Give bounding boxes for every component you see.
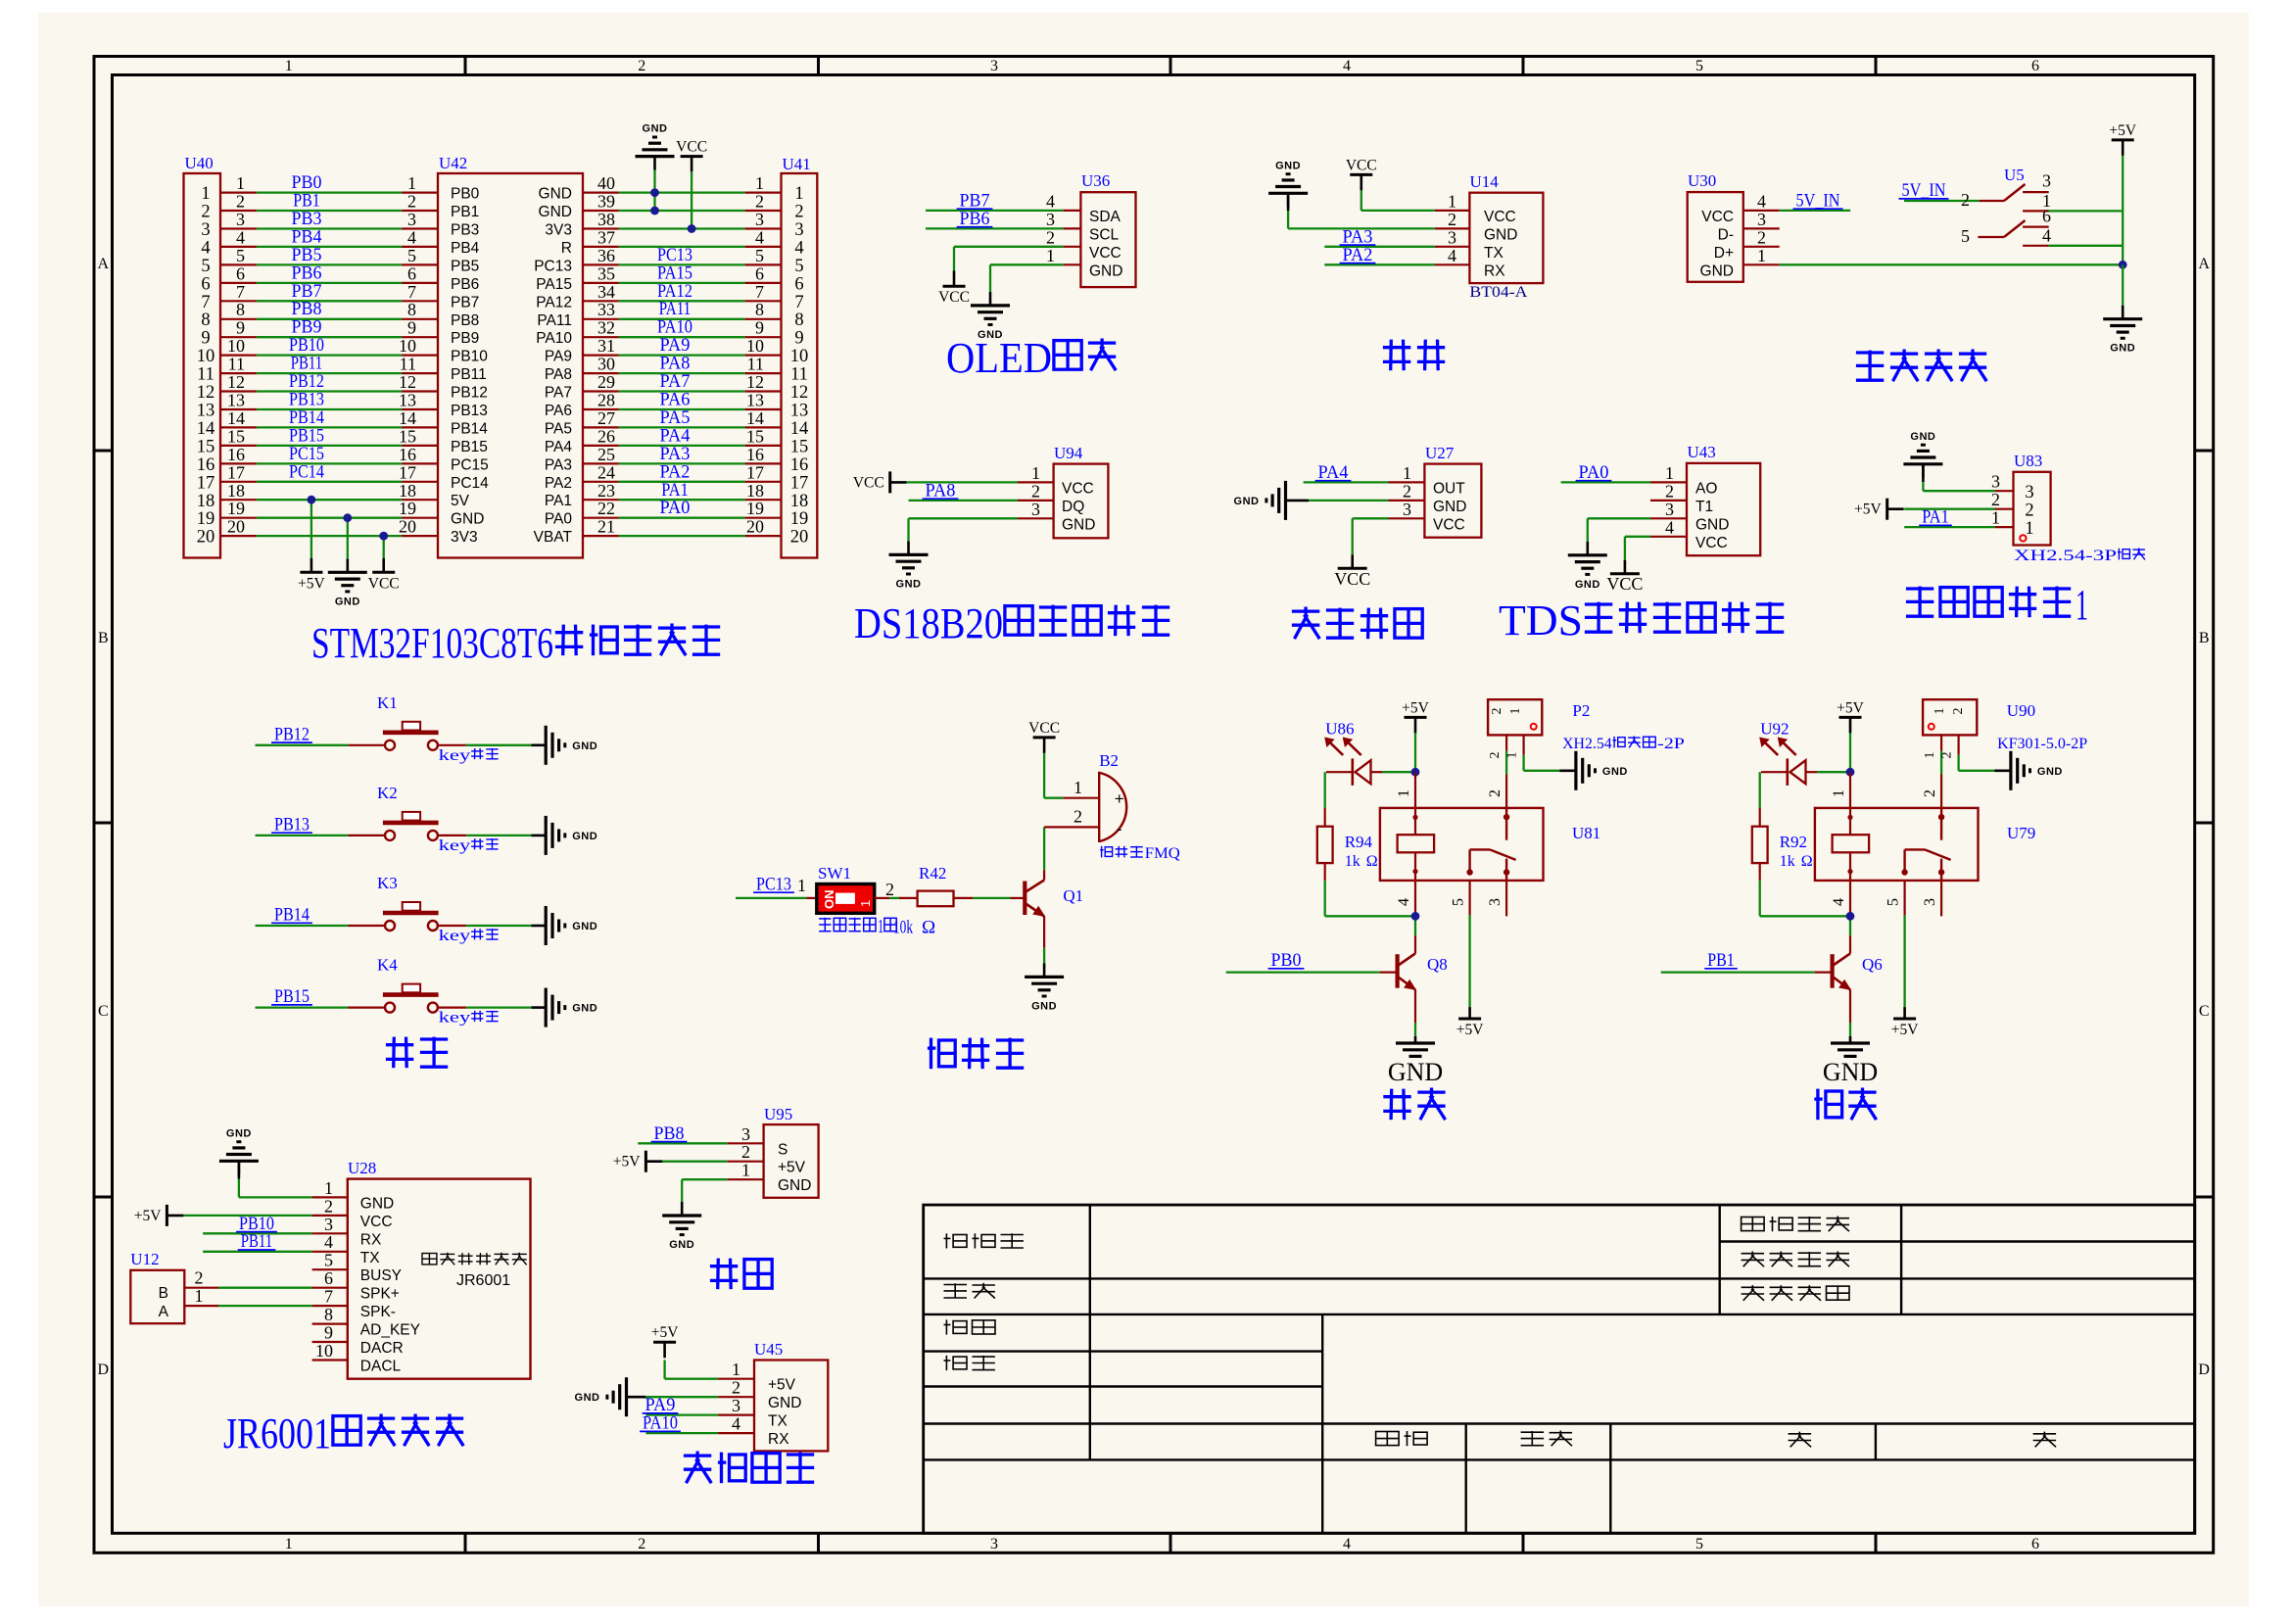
svg-text:7: 7 bbox=[755, 282, 764, 302]
svg-text:U41: U41 bbox=[783, 155, 811, 173]
wire U42 pin27 to U41 PA5 bbox=[583, 407, 782, 428]
svg-text:FMQ: FMQ bbox=[1145, 845, 1180, 862]
svg-text:20: 20 bbox=[790, 528, 809, 548]
wire K2 to GND bbox=[438, 836, 546, 854]
svg-text:TX: TX bbox=[1484, 245, 1503, 262]
junction dot +5V/LED bbox=[1846, 768, 1855, 777]
svg-text:GND: GND bbox=[1575, 579, 1600, 591]
svg-text:PB1: PB1 bbox=[1707, 950, 1735, 971]
junction dot VCC row 3 bbox=[688, 224, 696, 233]
svg-text:8: 8 bbox=[794, 310, 803, 330]
svg-text:S: S bbox=[778, 1141, 788, 1158]
wire P2 pin2 to relay pin2 bbox=[1488, 735, 1506, 808]
svg-text:3: 3 bbox=[755, 210, 764, 229]
svg-text:+5V: +5V bbox=[1854, 502, 1882, 518]
wire GND to U28 pin1 bbox=[239, 1178, 348, 1198]
wire PB8 to U95 pin3 bbox=[638, 1123, 763, 1144]
svg-text:SCL: SCL bbox=[1089, 226, 1120, 243]
wire U42 pin39 to U41 GND bbox=[583, 192, 782, 212]
svg-text:2: 2 bbox=[236, 192, 245, 212]
svg-text:3: 3 bbox=[407, 210, 416, 229]
svg-text:T1: T1 bbox=[1695, 499, 1713, 515]
svg-text:PB13: PB13 bbox=[274, 814, 310, 835]
wire U40 pin11 to U42 PB11 bbox=[220, 354, 438, 374]
svg-text:13: 13 bbox=[746, 391, 764, 410]
wire U40 pin20 to U42 3V3 bbox=[220, 517, 438, 537]
power GND right of K4 bbox=[545, 988, 548, 1027]
svg-text:6: 6 bbox=[2031, 1536, 2039, 1552]
connector P2 bbox=[1488, 699, 1685, 752]
svg-text:8: 8 bbox=[755, 300, 764, 319]
title power module bbox=[1856, 351, 1884, 354]
svg-text:3: 3 bbox=[1757, 210, 1766, 229]
wire SW1 pin2 to R42 bbox=[875, 880, 918, 899]
svg-text:4: 4 bbox=[1831, 898, 1847, 906]
power GND below U43 bbox=[1587, 542, 1590, 555]
connector U90 bbox=[1923, 699, 2087, 752]
svg-text:9: 9 bbox=[755, 318, 764, 338]
svg-text:6: 6 bbox=[2042, 206, 2051, 225]
svg-text:4: 4 bbox=[1343, 58, 1351, 74]
svg-text:PB15: PB15 bbox=[451, 439, 488, 455]
wire VCC to U27 pin3 bbox=[1353, 500, 1425, 555]
svg-text:13: 13 bbox=[399, 391, 416, 410]
svg-text:2: 2 bbox=[407, 192, 416, 212]
svg-text:6: 6 bbox=[755, 263, 764, 283]
svg-text:1: 1 bbox=[1757, 246, 1766, 265]
svg-text:2: 2 bbox=[1487, 789, 1503, 797]
svg-text:14: 14 bbox=[790, 419, 809, 439]
svg-text:2: 2 bbox=[741, 1142, 750, 1162]
svg-text:25: 25 bbox=[597, 445, 615, 464]
svg-text:26: 26 bbox=[597, 426, 615, 446]
svg-text:2: 2 bbox=[1488, 752, 1503, 759]
power VCC below OLED bbox=[938, 270, 970, 306]
svg-text:PB10: PB10 bbox=[451, 349, 488, 365]
svg-text:23: 23 bbox=[597, 481, 615, 501]
power GND symbol top-left of U14 bbox=[1268, 160, 1308, 228]
wire U40 pin19 to U42 GND bbox=[220, 499, 438, 518]
svg-text:11: 11 bbox=[790, 365, 808, 385]
svg-text:GND: GND bbox=[1700, 263, 1734, 279]
svg-text:10: 10 bbox=[197, 347, 215, 366]
wire PB11 to U28 pin4 bbox=[203, 1231, 348, 1252]
svg-text:17: 17 bbox=[399, 462, 416, 482]
wire U40 pin9 to U42 PB9 bbox=[220, 317, 438, 338]
wire U42 pin24 to U41 PA2 bbox=[583, 461, 782, 482]
wire VCC to U43 pin4 bbox=[1625, 517, 1687, 559]
wire +5V to U83 pin2 bbox=[1904, 490, 2013, 509]
svg-text:GND: GND bbox=[1695, 516, 1729, 533]
wire U40 pin8 to U42 PB8 bbox=[220, 299, 438, 319]
svg-text:2: 2 bbox=[732, 1378, 740, 1398]
power GND right of K3 bbox=[545, 906, 548, 945]
svg-text:9: 9 bbox=[201, 329, 210, 349]
svg-text:U81: U81 bbox=[1572, 824, 1600, 842]
wire GND from U30 pin1 bbox=[1743, 246, 2123, 265]
svg-text:B: B bbox=[159, 1285, 168, 1302]
power VCC above buzzer bbox=[1028, 720, 1060, 798]
wire U42 pin30 to U41 PA8 bbox=[583, 354, 782, 374]
svg-text:14: 14 bbox=[746, 408, 764, 428]
svg-text:Ω: Ω bbox=[1801, 853, 1813, 870]
svg-text:1: 1 bbox=[1046, 246, 1055, 265]
wire LED cathode down to resistor bbox=[1325, 772, 1353, 808]
svg-text:1: 1 bbox=[1448, 191, 1456, 211]
svg-text:15: 15 bbox=[399, 426, 416, 446]
svg-text:3: 3 bbox=[201, 220, 210, 240]
title photoelectric infrared bbox=[1292, 609, 1319, 612]
svg-text:PB9: PB9 bbox=[451, 330, 479, 347]
wire U40 pin3 to U42 PB3 bbox=[220, 209, 438, 229]
OLED connector U36 bbox=[1080, 171, 1135, 287]
svg-text:PB12: PB12 bbox=[451, 385, 488, 402]
wire U42 pin28 to U41 PA6 bbox=[583, 390, 782, 410]
svg-text:Q1: Q1 bbox=[1063, 886, 1083, 905]
svg-text:5: 5 bbox=[1961, 226, 1970, 246]
power VCC symbol below U40 bbox=[368, 558, 400, 592]
svg-text:1: 1 bbox=[285, 1536, 293, 1552]
svg-text:6: 6 bbox=[2031, 58, 2039, 74]
svg-text:U36: U36 bbox=[1081, 171, 1110, 190]
svg-text:PA5: PA5 bbox=[545, 420, 572, 437]
svg-text:PB0: PB0 bbox=[1271, 950, 1302, 971]
test port connector U45 bbox=[754, 1340, 828, 1451]
svg-text:1: 1 bbox=[236, 173, 245, 193]
svg-text:2: 2 bbox=[755, 192, 764, 212]
svg-text:JR6001: JR6001 bbox=[456, 1272, 510, 1289]
svg-text:18: 18 bbox=[790, 492, 809, 511]
svg-text:PB3: PB3 bbox=[451, 222, 479, 239]
servo connector U95 bbox=[764, 1105, 819, 1198]
svg-text:12: 12 bbox=[227, 372, 245, 392]
wire PB14 to K3 bbox=[256, 905, 385, 927]
pin D+ of U30 bbox=[1743, 227, 1780, 247]
title keys bbox=[386, 1043, 413, 1046]
svg-text:17: 17 bbox=[197, 473, 215, 493]
wire PB0 to transistor base bbox=[1226, 950, 1398, 973]
power +5V port left of U83 bbox=[1885, 499, 1888, 520]
svg-text:+5V: +5V bbox=[1837, 699, 1864, 716]
svg-text:2: 2 bbox=[1403, 481, 1411, 501]
svg-text:+5V: +5V bbox=[651, 1324, 679, 1341]
wire U42 pin36 to U41 PC13 bbox=[583, 245, 782, 265]
svg-text:VCC: VCC bbox=[1062, 480, 1094, 497]
resistor R42 bbox=[893, 864, 954, 938]
svg-text:key: key bbox=[439, 1010, 471, 1027]
svg-text:11: 11 bbox=[197, 365, 215, 385]
dip switch SW1 bbox=[817, 864, 896, 937]
svg-text:PA3: PA3 bbox=[545, 456, 572, 473]
svg-text:7: 7 bbox=[794, 293, 803, 312]
svg-text:9: 9 bbox=[407, 318, 416, 338]
svg-text:20: 20 bbox=[399, 517, 416, 537]
svg-text:3: 3 bbox=[741, 1124, 750, 1144]
svg-text:4: 4 bbox=[201, 238, 210, 258]
svg-text:GND: GND bbox=[778, 1177, 811, 1194]
svg-text:B: B bbox=[2199, 630, 2210, 646]
svg-text:11: 11 bbox=[228, 355, 245, 374]
svg-text:1k: 1k bbox=[1345, 853, 1360, 870]
svg-text:2: 2 bbox=[1961, 190, 1970, 210]
svg-text:3: 3 bbox=[1665, 500, 1674, 519]
svg-text:2: 2 bbox=[1757, 227, 1766, 247]
svg-text:OLED: OLED bbox=[946, 334, 1052, 382]
svg-text:PB11: PB11 bbox=[241, 1231, 273, 1252]
title buzzer bbox=[930, 1038, 932, 1070]
wire PB6 to U36 pin3 bbox=[926, 209, 1080, 229]
svg-text:1: 1 bbox=[324, 1178, 333, 1198]
svg-text:1: 1 bbox=[794, 184, 803, 204]
wire GND to U14 pin2 bbox=[1288, 210, 1469, 229]
svg-text:U86: U86 bbox=[1325, 720, 1354, 739]
wire relay pin4 to transistor collector bbox=[1414, 881, 1416, 935]
svg-text:4: 4 bbox=[407, 227, 416, 247]
svg-text:A: A bbox=[98, 256, 110, 272]
svg-text:7: 7 bbox=[201, 293, 210, 312]
svg-text:3: 3 bbox=[990, 58, 998, 74]
svg-text:BT04-A: BT04-A bbox=[1469, 284, 1527, 301]
svg-text:3: 3 bbox=[1403, 500, 1411, 519]
svg-text:PA8: PA8 bbox=[545, 366, 572, 383]
svg-text:C: C bbox=[2199, 1003, 2210, 1020]
wire PB1 to transistor base bbox=[1661, 950, 1833, 973]
svg-text:GND: GND bbox=[451, 511, 484, 528]
svg-text:GND: GND bbox=[2110, 343, 2135, 355]
wire relay pin5 to +5V bbox=[1468, 881, 1470, 1007]
wire U12 pin1 to U28 SPK- bbox=[184, 1286, 347, 1307]
svg-text:38: 38 bbox=[597, 210, 615, 229]
svg-text:16: 16 bbox=[746, 445, 764, 464]
svg-text:3: 3 bbox=[1487, 898, 1503, 906]
svg-text:1: 1 bbox=[878, 916, 883, 937]
svg-text:GND: GND bbox=[1602, 766, 1628, 778]
svg-text:2: 2 bbox=[638, 58, 645, 74]
svg-text:18: 18 bbox=[227, 481, 245, 501]
svg-text:13: 13 bbox=[227, 391, 245, 410]
svg-text:3: 3 bbox=[990, 1536, 998, 1552]
svg-text:21: 21 bbox=[597, 517, 615, 537]
svg-text:+5V: +5V bbox=[613, 1154, 641, 1170]
svg-text:5: 5 bbox=[236, 246, 245, 265]
svg-text:8: 8 bbox=[201, 310, 210, 330]
svg-text:SDA: SDA bbox=[1089, 209, 1122, 225]
svg-text:10k: 10k bbox=[893, 918, 913, 938]
svg-text:VCC: VCC bbox=[1346, 157, 1377, 173]
svg-text:PA4: PA4 bbox=[545, 439, 573, 455]
svg-text:14: 14 bbox=[197, 419, 215, 439]
svg-text:VCC: VCC bbox=[1606, 574, 1643, 594]
wire U42 pin34 to U41 PA12 bbox=[583, 281, 782, 302]
wire U42 pin29 to U41 PA7 bbox=[583, 371, 782, 392]
svg-text:5V_IN: 5V_IN bbox=[1796, 190, 1840, 211]
svg-text:1: 1 bbox=[1665, 463, 1674, 483]
svg-text:+5V: +5V bbox=[1891, 1022, 1919, 1038]
wire VCC to B2 pin1 bbox=[1044, 778, 1099, 798]
svg-text:XH2.54: XH2.54 bbox=[1562, 736, 1612, 752]
svg-text:SPK-: SPK- bbox=[360, 1304, 396, 1320]
svg-text:R94: R94 bbox=[1345, 833, 1373, 851]
svg-text:VCC: VCC bbox=[1433, 516, 1465, 533]
svg-text:10: 10 bbox=[790, 347, 809, 366]
svg-text:3: 3 bbox=[2042, 171, 2051, 191]
power GND right of P2 bbox=[1574, 751, 1577, 790]
wire Q1 collector to buzzer B2 pin2 bbox=[1043, 827, 1045, 880]
junction dot relay pin4 bbox=[1411, 912, 1420, 921]
svg-text:GND: GND bbox=[572, 831, 597, 842]
svg-text:1: 1 bbox=[195, 1286, 204, 1306]
svg-text:39: 39 bbox=[597, 192, 615, 212]
connector U41 bbox=[782, 155, 818, 558]
wire U40 pin2 to U42 PB1 bbox=[220, 191, 438, 212]
svg-text:18: 18 bbox=[197, 492, 215, 511]
power GND below OLED bbox=[989, 292, 992, 306]
svg-text:3: 3 bbox=[794, 220, 803, 240]
wire U40 pin15 to U42 PB15 bbox=[220, 425, 438, 446]
power GND right of K2 bbox=[545, 816, 548, 855]
svg-text:2: 2 bbox=[1922, 789, 1938, 797]
svg-text:PA0: PA0 bbox=[1579, 462, 1609, 483]
svg-text:7: 7 bbox=[324, 1287, 333, 1307]
svg-text:22: 22 bbox=[597, 499, 615, 518]
svg-text:U94: U94 bbox=[1054, 444, 1083, 462]
svg-text:Q8: Q8 bbox=[1427, 955, 1448, 974]
svg-text:15: 15 bbox=[746, 426, 764, 446]
svg-text:1: 1 bbox=[1923, 752, 1937, 759]
wire relay pin4 to transistor collector bbox=[1849, 881, 1851, 935]
svg-text:OUT: OUT bbox=[1433, 480, 1465, 497]
wire VCC to U14 pin1 bbox=[1361, 191, 1470, 211]
wire GND to U43 pin3 bbox=[1588, 500, 1687, 542]
svg-text:1: 1 bbox=[741, 1161, 750, 1180]
svg-text:2: 2 bbox=[201, 203, 210, 222]
wire U42 pin38 to U41 3V3 bbox=[583, 210, 782, 229]
svg-text:GND: GND bbox=[539, 186, 572, 203]
svg-text:20: 20 bbox=[746, 517, 764, 537]
svg-text:U83: U83 bbox=[2014, 452, 2042, 470]
svg-text:K4: K4 bbox=[377, 956, 398, 975]
svg-text:2: 2 bbox=[638, 1536, 645, 1552]
svg-text:PC13: PC13 bbox=[756, 874, 791, 894]
junction dot relay pin4 bbox=[1846, 912, 1855, 921]
svg-text:4: 4 bbox=[324, 1232, 333, 1252]
wire PA9 to U45 pin3 bbox=[643, 1395, 754, 1415]
svg-text:PA1: PA1 bbox=[545, 493, 572, 509]
wire resistor to relay pin4 row bbox=[1760, 881, 1850, 916]
svg-text:D-: D- bbox=[1718, 226, 1734, 243]
push button K2 bbox=[377, 784, 439, 840]
svg-text:1: 1 bbox=[755, 173, 764, 193]
svg-text:7: 7 bbox=[407, 282, 416, 302]
junction dot +5V/LED bbox=[1411, 768, 1420, 777]
svg-text:4: 4 bbox=[1396, 898, 1412, 906]
svg-text:GND: GND bbox=[1433, 499, 1466, 515]
svg-text:1: 1 bbox=[201, 184, 210, 204]
svg-text:10: 10 bbox=[227, 336, 245, 356]
svg-text:8: 8 bbox=[407, 300, 416, 319]
svg-text:key: key bbox=[439, 928, 471, 944]
svg-text:16: 16 bbox=[790, 455, 809, 475]
wire LED to +5V junction bbox=[1806, 771, 1851, 773]
svg-text:14: 14 bbox=[227, 408, 245, 428]
svg-text:18: 18 bbox=[746, 481, 764, 501]
svg-text:PA10: PA10 bbox=[536, 330, 572, 347]
svg-text:U28: U28 bbox=[348, 1159, 376, 1177]
svg-text:DACL: DACL bbox=[360, 1359, 402, 1375]
wire P2 pin1 to GND bbox=[1505, 735, 1576, 770]
svg-text:2: 2 bbox=[1940, 752, 1955, 759]
svg-text:PA4: PA4 bbox=[1318, 462, 1349, 483]
svg-text:ON: ON bbox=[822, 890, 836, 910]
svg-text:1: 1 bbox=[407, 173, 416, 193]
svg-text:VCC: VCC bbox=[1484, 209, 1516, 225]
wire R42 to Q1 base bbox=[954, 897, 1026, 899]
svg-text:15: 15 bbox=[227, 426, 245, 446]
pin DACL stub U28 pin10 bbox=[312, 1341, 348, 1361]
wire U42 pin26 to U41 PA4 bbox=[583, 425, 782, 446]
svg-text:2: 2 bbox=[1665, 481, 1674, 501]
svg-text:U27: U27 bbox=[1425, 444, 1455, 462]
svg-text:SW1: SW1 bbox=[818, 864, 851, 883]
svg-text:31: 31 bbox=[597, 336, 615, 356]
wire PB13 to K2 bbox=[256, 814, 385, 836]
wire PA10 to U45 pin4 bbox=[640, 1413, 754, 1434]
wire U40 pin10 to U42 PB10 bbox=[220, 335, 438, 356]
svg-text:7: 7 bbox=[236, 282, 245, 302]
svg-text:1: 1 bbox=[2076, 581, 2088, 629]
svg-text:DQ: DQ bbox=[1062, 499, 1084, 515]
svg-text:PA1: PA1 bbox=[1922, 507, 1949, 528]
svg-text:9: 9 bbox=[794, 329, 803, 349]
svg-text:GND: GND bbox=[226, 1127, 252, 1139]
svg-text:PC13: PC13 bbox=[534, 258, 572, 274]
svg-text:1: 1 bbox=[1831, 789, 1847, 797]
svg-text:1: 1 bbox=[1991, 508, 2000, 528]
wire U42 pin37 to U41 R bbox=[583, 227, 782, 247]
svg-text:U90: U90 bbox=[2007, 701, 2035, 720]
svg-text:A: A bbox=[159, 1304, 169, 1320]
svg-text:16: 16 bbox=[197, 455, 215, 475]
wire K3 to GND bbox=[438, 926, 546, 944]
svg-text:5: 5 bbox=[324, 1251, 333, 1270]
power +5V symbol below U40 bbox=[298, 558, 325, 592]
svg-text:34: 34 bbox=[597, 282, 615, 302]
wire U12 pin2 to U28 SPK+ bbox=[184, 1268, 347, 1289]
svg-text:VCC: VCC bbox=[676, 139, 707, 156]
svg-text:GND: GND bbox=[1234, 496, 1260, 507]
power VCC below U43 bbox=[1606, 560, 1643, 594]
svg-text:1: 1 bbox=[858, 900, 873, 907]
title bluetooth bbox=[1383, 346, 1410, 349]
svg-text:AD_KEY: AD_KEY bbox=[360, 1322, 420, 1339]
wire +5V to U28 pin2 bbox=[183, 1196, 347, 1216]
svg-text:4: 4 bbox=[755, 227, 764, 247]
svg-text:Q6: Q6 bbox=[1862, 955, 1883, 974]
wire PA2 to U14 pin4 bbox=[1324, 245, 1469, 265]
wire GND down to earth symbol bbox=[2122, 264, 2124, 305]
svg-text:PB8: PB8 bbox=[654, 1123, 685, 1144]
svg-text:PB15: PB15 bbox=[274, 986, 310, 1007]
title servo bbox=[710, 1265, 738, 1267]
svg-text:BUSY: BUSY bbox=[360, 1267, 402, 1284]
svg-text:17: 17 bbox=[227, 462, 245, 482]
svg-text:+5V: +5V bbox=[778, 1160, 806, 1176]
wire B2 pin2 bbox=[1044, 807, 1099, 828]
power GND above U83 bbox=[1903, 431, 1942, 491]
svg-text:2: 2 bbox=[324, 1196, 333, 1216]
connector U40 bbox=[184, 154, 221, 558]
svg-text:Ω: Ω bbox=[1366, 853, 1378, 870]
